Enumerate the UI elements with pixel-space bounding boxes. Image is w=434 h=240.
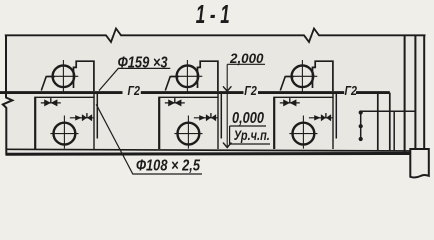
- svg-text:0,000: 0,000: [232, 110, 264, 127]
- svg-text:Г2: Г2: [128, 83, 141, 98]
- svg-text:Ф108 × 2,5: Ф108 × 2,5: [136, 158, 201, 175]
- svg-text:Г2: Г2: [345, 83, 358, 98]
- svg-text:1 - 1: 1 - 1: [196, 1, 230, 29]
- svg-text:Ур.ч.п.: Ур.ч.п.: [234, 128, 270, 143]
- svg-text:Г2: Г2: [244, 83, 257, 98]
- svg-text:Ф159 ×3: Ф159 ×3: [118, 55, 168, 72]
- svg-text:2,000: 2,000: [229, 50, 264, 66]
